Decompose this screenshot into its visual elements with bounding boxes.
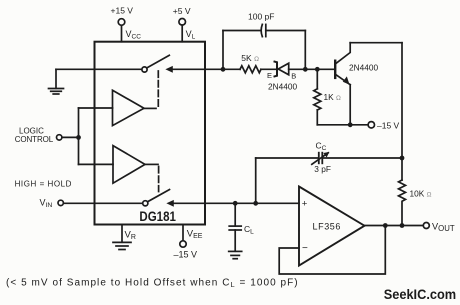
svg-text:VOUT: VOUT bbox=[432, 221, 455, 233]
diode D1 (2N4400 E-B junction) bbox=[275, 62, 289, 77]
wire logic to A1 input bbox=[79, 107, 113, 109]
svg-text:1K Ω: 1K Ω bbox=[324, 92, 341, 102]
wire 100pF left vertical bbox=[222, 31, 224, 70]
wire 100pF right vertical bbox=[304, 31, 306, 70]
switch S1 (sample switch upper) bbox=[142, 55, 172, 72]
ground G1 (top left) bbox=[49, 69, 64, 94]
pin VR with ground G2 bbox=[113, 225, 131, 250]
power terminal -15V bbox=[368, 122, 374, 128]
capacitor C1 100 pF bbox=[223, 24, 305, 36]
output terminal VOUT bbox=[423, 223, 429, 229]
svg-text:5K Ω: 5K Ω bbox=[241, 53, 259, 63]
svg-text:VCC: VCC bbox=[126, 29, 142, 41]
junction R2 top bbox=[315, 67, 320, 72]
buffer A1 (upper driver) bbox=[113, 90, 157, 125]
wire S2 output to op-amp + input bbox=[174, 202, 300, 204]
wire R1 to D1 bbox=[261, 68, 276, 70]
svg-text:SeekIC.com: SeekIC.com bbox=[384, 287, 457, 302]
svg-text:+15 V: +15 V bbox=[111, 6, 134, 16]
op-amp U2 LF356 bbox=[299, 187, 365, 266]
svg-text:10K Ω: 10K Ω bbox=[410, 189, 432, 199]
input terminal VIN bbox=[58, 200, 143, 205]
wire Q1 collector top bbox=[350, 42, 402, 44]
wire CC branch vertical bbox=[255, 158, 257, 203]
junction 100pF right bbox=[303, 67, 308, 72]
resistor R2 1K bbox=[314, 69, 321, 125]
svg-text:B: B bbox=[291, 71, 296, 80]
resistor R3 10K bbox=[399, 180, 406, 226]
junction CL top bbox=[233, 201, 238, 206]
wire Q1 emitter down bbox=[349, 85, 351, 125]
svg-text:E: E bbox=[267, 71, 272, 80]
wire right vertical (collector to 10K) bbox=[401, 43, 403, 180]
capacitor C2 CC 3pF (trimmer) bbox=[312, 152, 329, 164]
wire logic to A2 input bbox=[79, 163, 114, 165]
dashed control line S1 bbox=[157, 71, 159, 108]
svg-text:(< 5 mV of Sample to Hold Offs: (< 5 mV of Sample to Hold Offset when CL… bbox=[6, 277, 299, 289]
svg-text:VEE: VEE bbox=[187, 228, 203, 240]
wire op-amp output bbox=[365, 225, 424, 227]
wire CC line left bbox=[256, 157, 319, 159]
power terminal +5V (VL) bbox=[179, 19, 186, 42]
wire R2 bottom to -15V bbox=[317, 124, 368, 126]
dashed control line S2 bbox=[158, 167, 160, 192]
svg-text:2N4400: 2N4400 bbox=[349, 62, 378, 72]
svg-text:LF356: LF356 bbox=[313, 222, 342, 232]
junction node A (100pF left) bbox=[221, 67, 226, 72]
wire ground to switch S1 input bbox=[56, 68, 142, 70]
junction CC right bbox=[400, 156, 405, 161]
capacitor C3 CL bbox=[229, 203, 241, 251]
svg-text:–15 V: –15 V bbox=[377, 120, 400, 130]
svg-text:2N4400: 2N4400 bbox=[268, 82, 297, 92]
svg-text:DG181: DG181 bbox=[139, 208, 176, 224]
wire CC line right bbox=[322, 157, 402, 159]
svg-text:+: + bbox=[302, 199, 308, 210]
svg-text:CL: CL bbox=[244, 224, 254, 236]
svg-text:+5 V: +5 V bbox=[173, 6, 191, 16]
pin VEE with -15V terminal bbox=[180, 225, 186, 248]
svg-text:LOGIC: LOGIC bbox=[19, 126, 44, 135]
svg-text:3 pF: 3 pF bbox=[314, 164, 331, 174]
svg-text:CC: CC bbox=[316, 141, 327, 153]
svg-text:VIN: VIN bbox=[40, 197, 53, 209]
junction 10K bottom bbox=[400, 223, 405, 228]
wire logic control vertical bbox=[78, 108, 80, 164]
junction CC branch bbox=[253, 201, 258, 206]
junction feedback bbox=[383, 223, 388, 228]
svg-text:100 pF: 100 pF bbox=[248, 11, 274, 21]
svg-text:−: − bbox=[302, 243, 308, 254]
switch S2 (input switch lower) bbox=[143, 190, 174, 207]
wire - input feedback bbox=[279, 226, 385, 275]
svg-text:CONTROL: CONTROL bbox=[15, 135, 54, 144]
wire D1 to Q1 base bbox=[289, 68, 334, 70]
wire S1 output to node A bbox=[173, 68, 241, 70]
transistor Q1 2N4400 bbox=[335, 43, 350, 85]
ground G3 (under CL) bbox=[229, 251, 242, 258]
resistor R1 5K bbox=[240, 66, 261, 73]
buffer A2 (lower driver) bbox=[113, 146, 158, 184]
junction logic control bbox=[76, 135, 81, 140]
svg-text:VL: VL bbox=[186, 29, 196, 41]
svg-text:HIGH = HOLD: HIGH = HOLD bbox=[15, 179, 72, 188]
power terminal +15V (VCC) bbox=[118, 19, 125, 42]
svg-text:VR: VR bbox=[125, 229, 136, 241]
junction emitter node bbox=[348, 122, 353, 127]
IC U1 DG181 body bbox=[95, 42, 206, 225]
svg-text:–15 V: –15 V bbox=[174, 250, 198, 260]
logic control terminal bbox=[57, 135, 79, 140]
